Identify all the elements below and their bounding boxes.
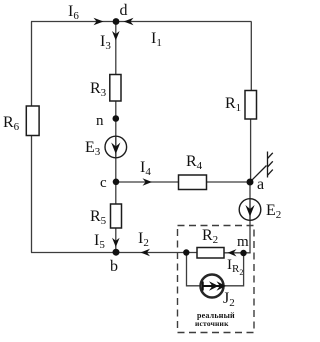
svg-text:J2: J2 <box>223 290 235 309</box>
node n <box>113 115 120 122</box>
svg-text:источник: источник <box>195 319 229 328</box>
svg-text:R1: R1 <box>225 95 241 114</box>
resistor R3 <box>110 75 121 102</box>
svg-text:I2: I2 <box>138 230 149 249</box>
wire d to R3 <box>115 22 117 75</box>
svg-text:b: b <box>110 258 118 275</box>
node b <box>113 249 120 256</box>
source E2 <box>239 199 261 221</box>
svg-text:IR2: IR2 <box>227 257 243 277</box>
svg-text:I1: I1 <box>151 30 162 49</box>
current arrow I5 <box>112 238 120 247</box>
current arrow I6 <box>94 18 104 25</box>
resistor R1 <box>245 91 257 120</box>
svg-text:I4: I4 <box>140 159 151 178</box>
wire R1 to a <box>250 119 252 183</box>
wire J2 loop right <box>223 253 244 286</box>
wire E2 to m corner <box>249 220 251 253</box>
svg-text:I3: I3 <box>100 33 111 52</box>
svg-text:R2: R2 <box>202 227 218 246</box>
dashed box (real source) <box>178 226 255 333</box>
current arrow I2 <box>141 249 151 256</box>
wire right vertical to R1 <box>250 22 252 91</box>
wire c to R5 <box>115 182 117 205</box>
wire R4 to a <box>207 181 251 183</box>
svg-text:I5: I5 <box>94 232 105 251</box>
node c <box>113 179 120 186</box>
wire R2 to corner m <box>224 252 251 254</box>
wire a to E2 <box>249 182 251 200</box>
svg-text:m: m <box>237 234 249 250</box>
node a <box>247 179 254 186</box>
node d <box>113 18 120 25</box>
wire left vertical lower <box>31 135 33 253</box>
resistor R5 <box>111 204 122 228</box>
current source J2 <box>201 275 227 298</box>
wire bottom (left corner to b to R2) <box>31 252 197 254</box>
wire top (d to right corner) <box>31 21 252 23</box>
current arrow IR2 <box>228 249 237 256</box>
svg-text:I6: I6 <box>68 3 79 22</box>
current arrow I1 <box>124 18 134 25</box>
resistor R4 <box>179 175 207 190</box>
svg-text:R6: R6 <box>3 114 20 133</box>
junction node at R2 left <box>183 249 189 255</box>
wire c to R4 (middle horizontal) <box>116 181 179 183</box>
svg-text:E2: E2 <box>266 202 281 221</box>
source E3 <box>105 136 127 158</box>
wire left vertical upper <box>31 22 33 108</box>
ground at node a <box>250 152 273 183</box>
resistor R2 <box>197 248 224 259</box>
svg-text:R5: R5 <box>90 208 107 227</box>
wire R3 to E3 through n <box>115 101 117 137</box>
svg-text:R3: R3 <box>90 80 107 99</box>
resistor R6 <box>26 106 39 136</box>
node m <box>240 250 246 256</box>
wire R5 to b <box>115 228 117 253</box>
svg-text:d: d <box>120 2 128 19</box>
svg-text:a: a <box>257 176 264 193</box>
wire J2 loop left <box>187 253 201 286</box>
svg-text:n: n <box>96 113 104 129</box>
current arrow I3 <box>112 31 120 41</box>
svg-text:c: c <box>100 175 107 191</box>
current arrow I4 <box>143 178 153 185</box>
svg-text:E3: E3 <box>85 139 101 158</box>
svg-text:R4: R4 <box>186 153 203 172</box>
wire E3 to c <box>115 158 117 183</box>
